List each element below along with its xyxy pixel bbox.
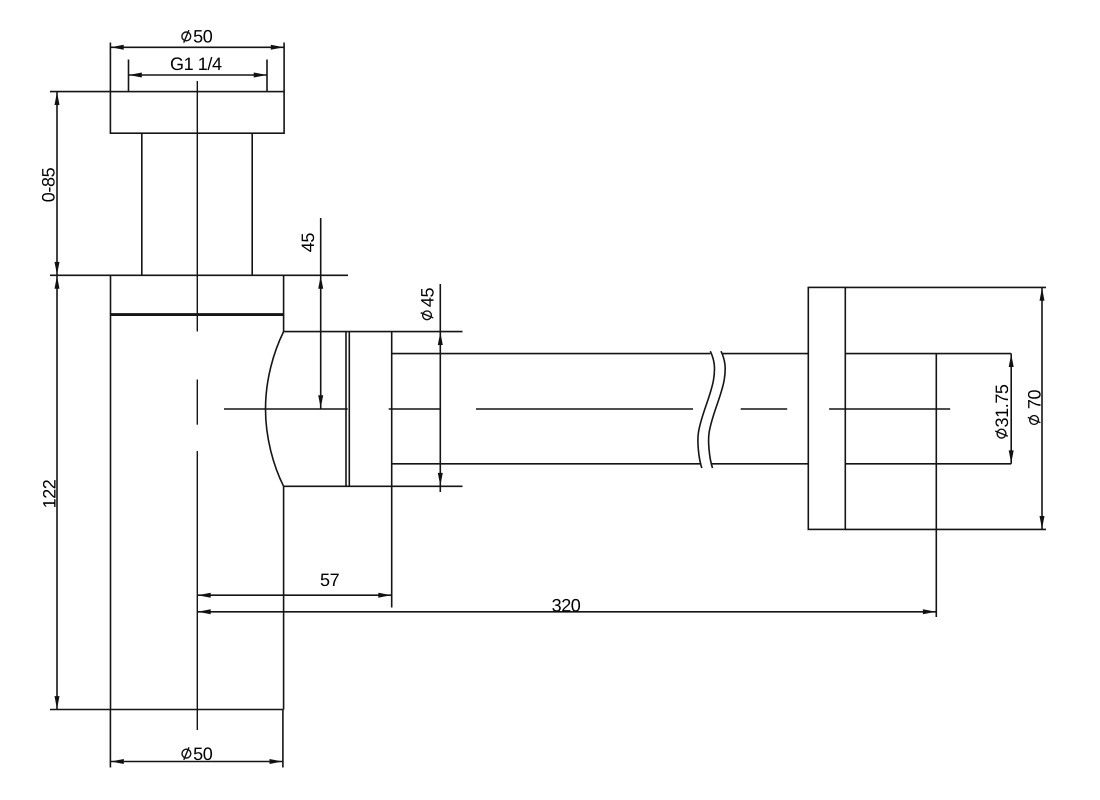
svg-text:31.75: 31.75 (992, 384, 1012, 427)
svg-text:G1 1/4: G1 1/4 (170, 54, 222, 74)
svg-text:50: 50 (193, 744, 213, 764)
svg-text:57: 57 (320, 570, 340, 590)
svg-text:320: 320 (552, 595, 581, 615)
svg-text:122: 122 (40, 479, 60, 508)
svg-text:45: 45 (298, 233, 318, 253)
svg-text:50: 50 (193, 27, 213, 47)
svg-text:0-85: 0-85 (39, 167, 59, 202)
svg-text:70: 70 (1024, 390, 1044, 410)
svg-text:45: 45 (417, 288, 437, 308)
